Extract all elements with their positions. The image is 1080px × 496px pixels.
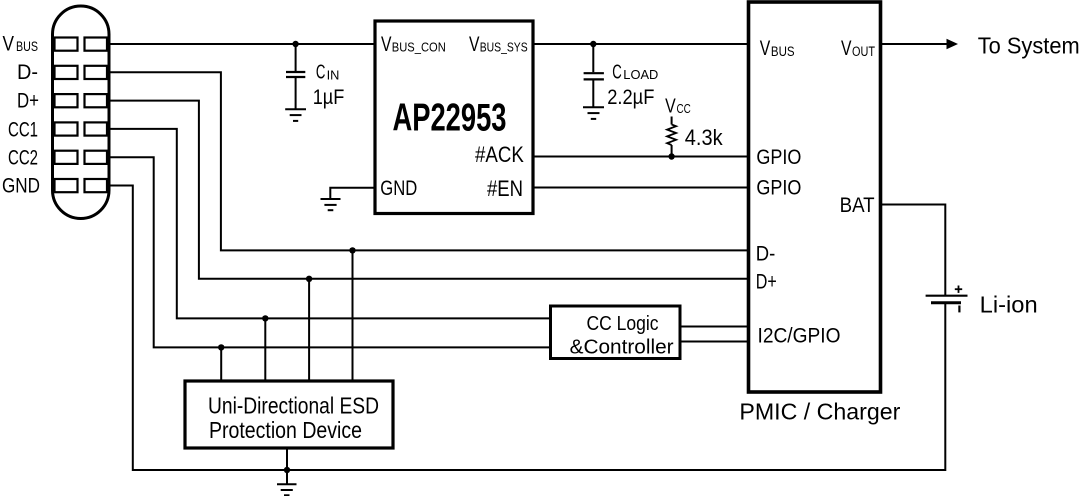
svg-text:GPIO: GPIO	[756, 145, 801, 169]
svg-text:BUS_SYS: BUS_SYS	[480, 40, 528, 55]
svg-text:Protection Device: Protection Device	[209, 417, 362, 443]
svg-text:D+: D+	[17, 90, 39, 113]
svg-text:C: C	[612, 61, 622, 83]
svg-text:CC Logic: CC Logic	[587, 312, 659, 335]
svg-text:GND: GND	[2, 175, 40, 198]
svg-text:BUS: BUS	[16, 39, 38, 54]
svg-text:CC2: CC2	[8, 147, 38, 170]
svg-text:OUT: OUT	[852, 44, 875, 59]
svg-text:I2C/GPIO: I2C/GPIO	[758, 324, 841, 348]
svg-text:4.3k: 4.3k	[685, 125, 724, 150]
svg-text:#ACK: #ACK	[475, 142, 524, 167]
svg-text:D-: D-	[756, 242, 776, 266]
svg-text:To System: To System	[978, 33, 1080, 59]
svg-text:PMIC / Charger: PMIC / Charger	[739, 399, 900, 425]
svg-text:BAT: BAT	[840, 193, 875, 217]
svg-text:D-: D-	[17, 61, 38, 84]
svg-text:BUS: BUS	[771, 44, 795, 59]
svg-text:V: V	[469, 33, 480, 56]
svg-text:LOAD: LOAD	[623, 67, 658, 82]
svg-text:V: V	[3, 32, 15, 55]
svg-text:IN: IN	[327, 67, 340, 82]
svg-text:CC: CC	[677, 101, 691, 116]
svg-text:#EN: #EN	[487, 176, 523, 201]
svg-text:GND: GND	[380, 177, 417, 200]
svg-text:V: V	[381, 33, 392, 56]
svg-text:&Controller: &Controller	[570, 335, 674, 358]
svg-text:C: C	[316, 62, 326, 84]
svg-text:2.2µF: 2.2µF	[607, 86, 654, 109]
svg-text:V: V	[841, 36, 852, 60]
svg-text:CC1: CC1	[8, 119, 38, 142]
svg-text:V: V	[665, 95, 676, 117]
svg-text:Li-ion: Li-ion	[980, 291, 1038, 317]
svg-text:AP22953: AP22953	[393, 97, 507, 140]
svg-text:V: V	[760, 36, 771, 60]
svg-text:BUS_CON: BUS_CON	[392, 40, 446, 55]
svg-text:GPIO: GPIO	[756, 176, 801, 200]
svg-text:D+: D+	[756, 270, 777, 294]
svg-text:Uni-Directional ESD: Uni-Directional ESD	[208, 392, 379, 418]
svg-text:1µF: 1µF	[313, 86, 345, 109]
